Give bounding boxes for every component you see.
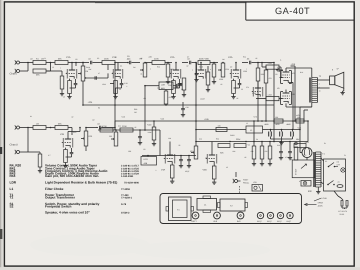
wire LDR mid left bbox=[144, 85, 159, 87]
sprinkle labels a bbox=[44, 55, 247, 71]
ground C16 bbox=[279, 156, 283, 160]
filter cap C18 +465 bbox=[264, 123, 271, 139]
resistor R31 droppr bbox=[148, 120, 157, 146]
resistor R15 1.5M bbox=[262, 62, 281, 77]
svg-text:.02: .02 bbox=[220, 83, 222, 86]
wire V2B plate up bbox=[68, 127, 81, 135]
cap C19 trem bbox=[181, 102, 189, 117]
svg-text:R10: R10 bbox=[157, 66, 160, 69]
cathode V3A bbox=[170, 164, 174, 184]
gain box right bbox=[290, 142, 298, 162]
sprinkle labels c bbox=[30, 107, 257, 121]
svg-text:4.7: 4.7 bbox=[48, 154, 51, 157]
svg-text:GAIN: GAIN bbox=[230, 134, 235, 137]
svg-text:L1: L1 bbox=[10, 187, 14, 191]
resistor R1 1M bbox=[33, 58, 46, 65]
svg-text:1500: 1500 bbox=[168, 84, 172, 87]
wire B2 feed bbox=[195, 129, 240, 131]
misc label s bbox=[205, 134, 235, 160]
triode V3B bbox=[195, 62, 206, 79]
svg-text:Gain pot, 500 ohm AB/150 ohm m: Gain pot, 500 ohm AB/150 ohm min. bbox=[45, 174, 99, 178]
filter bus wire bbox=[268, 129, 300, 131]
footswitch dashed link bbox=[239, 186, 241, 193]
svg-text:.006: .006 bbox=[232, 150, 235, 153]
label B+ c bbox=[296, 118, 301, 121]
wire rail to C4 bbox=[83, 62, 89, 64]
T1 ground bbox=[316, 187, 320, 194]
output tube V5 6V6 bbox=[280, 69, 292, 84]
svg-text:+270: +270 bbox=[253, 116, 257, 119]
AC plug P1 bbox=[334, 191, 348, 209]
svg-text:47: 47 bbox=[98, 72, 100, 75]
svg-text:6SQ7: 6SQ7 bbox=[267, 220, 272, 223]
tone pot R9 bbox=[140, 58, 147, 78]
svg-text:.445: .445 bbox=[148, 56, 152, 59]
wire pot down bbox=[82, 81, 84, 105]
label speaker bbox=[332, 68, 340, 72]
tube socket preamp 3 bbox=[277, 212, 284, 223]
svg-text:C19: C19 bbox=[186, 106, 189, 109]
svg-text:R24: R24 bbox=[216, 138, 219, 141]
vertical wire PI drop bbox=[273, 63, 275, 129]
annotation labels mid band bbox=[96, 125, 290, 174]
svg-text:Output Transformer: Output Transformer bbox=[45, 196, 76, 200]
phase inverter triode bbox=[252, 81, 263, 97]
wire PI drop2 bbox=[273, 128, 275, 142]
scan smudge left low bbox=[0, 229, 2, 239]
ground R11 bbox=[166, 80, 170, 84]
parts list LDR bbox=[10, 181, 140, 185]
tube socket preamp 1 bbox=[257, 212, 264, 223]
svg-text:470K: 470K bbox=[102, 125, 107, 128]
svg-text:JACK: JACK bbox=[318, 205, 324, 208]
svg-text:V1A: V1A bbox=[66, 56, 71, 59]
svg-text:OFF: OFF bbox=[337, 164, 340, 167]
vertical wire bus1 bbox=[114, 63, 116, 131]
wire OT to PSU bbox=[300, 107, 312, 122]
rectifier tube V7 bbox=[300, 147, 312, 158]
wire R7 to V1B bbox=[114, 62, 122, 64]
svg-text:250K: 250K bbox=[104, 57, 109, 60]
ground R28 bbox=[206, 88, 210, 92]
wire R17 to V2B bbox=[68, 128, 72, 136]
svg-text:SPKR: SPKR bbox=[318, 202, 324, 205]
svg-text:V1B: V1B bbox=[112, 56, 117, 59]
svg-text:RECT: RECT bbox=[192, 220, 198, 223]
wire J3 to rail bbox=[23, 127, 34, 129]
power labels bbox=[308, 190, 312, 193]
label R29 bbox=[124, 82, 172, 87]
LDR box mid bbox=[159, 82, 173, 90]
switch box S1 bbox=[324, 159, 346, 191]
parts list S1 bbox=[10, 202, 127, 206]
tube socket 6V6 b bbox=[237, 212, 244, 223]
choke L1 bbox=[240, 126, 268, 133]
svg-text:6SQ7: 6SQ7 bbox=[287, 220, 292, 223]
heater left box bbox=[292, 160, 314, 178]
label V3B bbox=[205, 58, 210, 61]
chassis transformer T2 shape bbox=[218, 199, 248, 211]
svg-text:C4: C4 bbox=[120, 65, 122, 68]
depth pot R24 bbox=[190, 141, 198, 159]
svg-text:V2A: V2A bbox=[170, 56, 175, 59]
wire between R1 R2 bbox=[46, 62, 55, 64]
resistor R2 68K bbox=[55, 58, 68, 65]
label R33 1M bbox=[134, 108, 137, 114]
switch S1b bbox=[327, 181, 335, 186]
svg-text:C14: C14 bbox=[199, 138, 202, 141]
svg-text:.02: .02 bbox=[140, 57, 142, 60]
plate resistor RP1 vertical bbox=[256, 62, 265, 86]
triode V4A bbox=[230, 63, 241, 79]
label +325 a bbox=[88, 101, 94, 104]
speaker SP1 bbox=[330, 72, 344, 88]
jack J3 channel 2 bbox=[15, 125, 23, 129]
svg-text:LDR: LDR bbox=[10, 181, 17, 185]
wire trem drop bbox=[159, 130, 161, 156]
coupling cap C3 bbox=[76, 62, 83, 64]
tube socket V7 rect bbox=[192, 212, 199, 223]
label Chan I bbox=[10, 73, 18, 76]
triode V2A bbox=[170, 63, 181, 79]
svg-text:6SQ7: 6SQ7 bbox=[185, 170, 189, 173]
label +185 bbox=[204, 118, 210, 121]
svg-text:R14: R14 bbox=[243, 55, 246, 58]
power transformer T1 winding bbox=[316, 152, 322, 187]
svg-text:Speaker, 4 ohm voice coil 10": Speaker, 4 ohm voice coil 10" bbox=[45, 211, 90, 215]
label V2B bbox=[60, 133, 65, 136]
transformer T2 core bbox=[309, 78, 310, 103]
resistor R17 68K bbox=[55, 122, 68, 129]
PI labels bbox=[247, 144, 268, 154]
svg-text:R25: R25 bbox=[220, 152, 223, 155]
svg-text:270: 270 bbox=[246, 86, 249, 89]
wire screens bbox=[288, 82, 294, 121]
resistor R11 100K vertical bbox=[166, 63, 174, 81]
resistor R35 on B+ rail bbox=[296, 116, 304, 123]
resistor R26 bbox=[234, 138, 246, 148]
ground C13 bbox=[138, 141, 142, 145]
resistor R22 bbox=[120, 125, 133, 132]
mid rail wire bbox=[196, 141, 308, 143]
svg-text:GA-40T: GA-40T bbox=[275, 6, 310, 16]
resistor R12 500K bbox=[198, 57, 210, 64]
resistor R10 220K bbox=[152, 57, 165, 64]
svg-text:Light Dependent Resistor & Bul: Light Dependent Resistor & Bulb Assem (7… bbox=[45, 181, 117, 185]
triode V1B bbox=[112, 63, 123, 79]
label T2 right bbox=[319, 75, 322, 78]
cathode network V2A bbox=[171, 79, 181, 99]
tremolo rail wire bbox=[142, 155, 196, 157]
scan smudge left mid bbox=[0, 147, 2, 154]
triode V1A bbox=[66, 66, 77, 79]
svg-text:5Y3: 5Y3 bbox=[303, 154, 306, 157]
svg-text:C11: C11 bbox=[118, 125, 121, 128]
svg-text:6V6: 6V6 bbox=[291, 93, 294, 96]
wire J2 riser bbox=[23, 62, 29, 71]
ground C22 bbox=[194, 78, 198, 82]
wire secondary top to speaker bbox=[317, 79, 329, 81]
switch S1a bbox=[328, 163, 338, 168]
wire R10 to V2A bbox=[165, 62, 172, 64]
pot R30 mid bbox=[179, 78, 186, 97]
cathode V4B bbox=[212, 164, 216, 185]
resistor R34 on B+ rail bbox=[274, 116, 283, 123]
svg-text:S1: S1 bbox=[325, 160, 327, 163]
label Chan II bbox=[10, 144, 19, 147]
svg-text:.25: .25 bbox=[178, 144, 180, 147]
annotation labels power bbox=[246, 122, 346, 193]
ground V1A cathode bbox=[67, 94, 71, 99]
wire V6 plate to OT bbox=[286, 103, 312, 108]
plate resistor RP2 vertical bbox=[264, 66, 272, 88]
wire J4 riser bbox=[23, 127, 29, 152]
svg-text:25: 25 bbox=[241, 88, 243, 91]
title box bbox=[246, 2, 354, 20]
svg-text:.05: .05 bbox=[134, 126, 136, 129]
annotation labels top band bbox=[30, 57, 304, 76]
svg-text:25: 25 bbox=[119, 88, 121, 91]
PI resistor RB vertical bbox=[260, 141, 264, 166]
wire V4A out bbox=[242, 62, 248, 64]
wire stage2 plate bbox=[122, 62, 128, 64]
svg-text:117 VOLTS: 117 VOLTS bbox=[338, 210, 348, 213]
svg-text:J2: J2 bbox=[52, 66, 54, 69]
junction dots rail1 bbox=[82, 62, 237, 64]
heater run bbox=[292, 121, 294, 130]
resistor R18 bbox=[28, 152, 42, 173]
resistor R13 vertical bbox=[212, 63, 216, 84]
svg-text:220K: 220K bbox=[122, 125, 127, 128]
tone pot R14 bbox=[218, 62, 229, 77]
wire B+ to OT bbox=[291, 66, 296, 122]
wire T1 to switch box bbox=[321, 158, 324, 184]
LDR box bbox=[141, 155, 157, 165]
resistor R32 below LDR bbox=[164, 90, 173, 106]
plate resistor feeds bbox=[114, 121, 116, 130]
parts list L1 bbox=[10, 187, 131, 191]
wire J1 to grid rail bbox=[23, 62, 34, 64]
label C6b bbox=[148, 56, 152, 59]
B+ bus 325 bbox=[82, 104, 274, 106]
label plus465 rect bbox=[305, 141, 309, 144]
parts list T1 bbox=[10, 193, 130, 197]
svg-text:C3: C3 bbox=[97, 57, 99, 60]
tube socket 6V6 a bbox=[214, 212, 221, 223]
svg-text:+90: +90 bbox=[143, 97, 146, 100]
wire V1A plate to rail bbox=[71, 62, 73, 66]
cap C10 .05 bbox=[247, 57, 263, 64]
cathode cap C5 bbox=[120, 79, 124, 88]
coupling cap C21 bbox=[275, 68, 283, 76]
resistor R27 bbox=[294, 138, 306, 148]
cathode resistor R8 bbox=[110, 81, 117, 94]
svg-text:+440: +440 bbox=[297, 127, 301, 130]
PI resistor RC vertical bbox=[268, 141, 272, 166]
svg-text:S-534-2: S-534-2 bbox=[121, 212, 130, 215]
svg-text:.1: .1 bbox=[155, 169, 156, 172]
pilot lamp bbox=[341, 168, 345, 172]
svg-text:C9: C9 bbox=[230, 66, 232, 69]
PI cap C16 bbox=[279, 141, 283, 156]
wire R3 to junction bbox=[46, 63, 51, 72]
output tube V6 6V6 bbox=[280, 90, 292, 105]
filter cap C19 +455 bbox=[275, 123, 282, 139]
PI cap C17 bbox=[288, 141, 292, 156]
title text GA-40T bbox=[275, 6, 310, 16]
wire to R10 bbox=[145, 62, 152, 64]
wire R2 to V1A grid bbox=[68, 63, 76, 67]
svg-text:.02: .02 bbox=[92, 118, 95, 121]
svg-text:6V6: 6V6 bbox=[291, 72, 294, 75]
ground speaker bbox=[340, 88, 344, 95]
coupling cap C4 .02 bbox=[88, 57, 102, 64]
resistor R3 68K bbox=[33, 69, 46, 77]
chassis layout box bbox=[160, 194, 302, 224]
sprinkle labels b bbox=[63, 83, 249, 101]
cap C8 bbox=[187, 57, 196, 64]
svg-text:6V6: 6V6 bbox=[237, 220, 240, 223]
triode V2B bbox=[62, 135, 73, 148]
svg-text:8: 8 bbox=[332, 69, 333, 72]
svg-text:C16: C16 bbox=[277, 144, 280, 147]
svg-text:S-78: S-78 bbox=[121, 203, 127, 206]
tube socket preamp 2 bbox=[267, 212, 274, 223]
label V4A bbox=[228, 56, 233, 59]
svg-text:+22: +22 bbox=[247, 144, 250, 147]
freq pot R23 bbox=[109, 129, 118, 146]
scan edge left strip bbox=[0, 0, 3, 270]
T1 core bbox=[314, 152, 315, 187]
ch2 labels bbox=[48, 118, 95, 157]
wire R16-R17 bbox=[46, 127, 55, 129]
wire ch2 to mixer bbox=[86, 127, 98, 129]
osc cap C14 bbox=[179, 155, 183, 164]
cap C23 mid bbox=[177, 84, 183, 88]
svg-text:R19: R19 bbox=[73, 131, 76, 134]
label on off bbox=[325, 160, 340, 167]
svg-text:75-4159-4000: 75-4159-4000 bbox=[124, 182, 140, 185]
cathode V2B bbox=[63, 148, 73, 168]
resistor R16 1M bbox=[33, 122, 46, 129]
output transformer T2 primary bbox=[312, 78, 318, 103]
spkr jack label bbox=[305, 202, 324, 208]
wire to V4A bbox=[210, 62, 218, 64]
volume pot R6 bbox=[78, 62, 89, 81]
ground C15 bbox=[187, 164, 191, 168]
svg-text:.02: .02 bbox=[275, 73, 278, 76]
jack J4 channel 2 bbox=[15, 150, 23, 154]
resistor R7 250K bbox=[102, 57, 115, 64]
trem label bbox=[128, 148, 146, 153]
label secondary taps bbox=[319, 83, 321, 93]
label +318 bbox=[291, 63, 297, 66]
bias box bbox=[301, 181, 311, 187]
chassis choke L1 shape bbox=[197, 196, 217, 213]
svg-text:LDR: LDR bbox=[161, 84, 166, 87]
bypass cap C2 bbox=[70, 79, 78, 88]
jack J2 channel 1 bbox=[15, 69, 23, 73]
svg-text:PEDAL: PEDAL bbox=[243, 182, 249, 185]
wire rect to T1 bbox=[306, 158, 308, 161]
svg-text:50-60: 50-60 bbox=[340, 213, 345, 216]
B+ rail wire bbox=[115, 120, 305, 122]
ground C14 bbox=[179, 164, 183, 168]
label plus100 bbox=[147, 124, 151, 127]
svg-text:.02: .02 bbox=[186, 65, 188, 68]
wire V5 plate to OT bbox=[286, 68, 312, 78]
svg-text:Chan.II: Chan.II bbox=[10, 144, 19, 147]
vertical wire bus2 bbox=[195, 62, 197, 142]
resistor R25 bbox=[218, 144, 230, 155]
svg-text:FOOT: FOOT bbox=[243, 179, 249, 182]
label V2A bbox=[170, 56, 175, 59]
svg-text:44B: 44B bbox=[144, 162, 148, 165]
svg-text:+465: +465 bbox=[305, 141, 309, 144]
label caps small bbox=[119, 88, 243, 91]
PI resistor RA vertical bbox=[252, 141, 256, 166]
osc cap C15 bbox=[187, 155, 191, 164]
wire filter to rect bbox=[299, 107, 302, 153]
svg-text:1M: 1M bbox=[109, 135, 112, 138]
scan bottom strip bbox=[0, 267, 360, 270]
svg-text:.05: .05 bbox=[244, 156, 246, 159]
parts list speaker bbox=[45, 211, 130, 215]
cap C12 bbox=[97, 122, 110, 129]
svg-text:+120: +120 bbox=[121, 116, 125, 119]
svg-text:Footpedal Switch: Footpedal Switch bbox=[45, 205, 71, 209]
resistor R21 bbox=[100, 125, 113, 132]
fuse F1 bbox=[337, 181, 343, 188]
svg-text:L1: L1 bbox=[246, 122, 248, 125]
filter ground bus bbox=[271, 139, 293, 145]
wire PI out up bbox=[305, 120, 309, 141]
parts list R frequency bbox=[10, 169, 140, 173]
wire RP drop to B+ bbox=[257, 86, 267, 122]
label T1 bbox=[322, 153, 325, 156]
footswitch jack J5 bbox=[233, 172, 249, 185]
svg-text:V4B: V4B bbox=[203, 169, 208, 172]
label 6V6 V6 bbox=[277, 87, 294, 96]
svg-text:.01: .01 bbox=[140, 73, 142, 76]
wire R15 to grids bbox=[261, 62, 275, 64]
cap C13 bbox=[138, 129, 142, 141]
resistor R16 1.5M bbox=[256, 94, 282, 101]
svg-text:J1: J1 bbox=[44, 57, 46, 60]
wire plate R7 feed bbox=[107, 65, 109, 71]
label V4B bbox=[203, 169, 208, 172]
svg-text:77-4159-1: 77-4159-1 bbox=[121, 197, 133, 200]
volume pot R20 bbox=[81, 127, 93, 146]
svg-text:Chan.I: Chan.I bbox=[10, 73, 18, 76]
node A junction bbox=[75, 62, 77, 64]
svg-text:77-2059: 77-2059 bbox=[121, 188, 130, 191]
svg-text:Filter Choke: Filter Choke bbox=[45, 187, 64, 191]
svg-text:F1: F1 bbox=[344, 154, 346, 157]
jack J1 channel 1 bbox=[15, 60, 23, 64]
svg-text:R33: R33 bbox=[134, 108, 137, 111]
svg-text:20: 20 bbox=[256, 138, 258, 141]
svg-text:.02: .02 bbox=[75, 58, 78, 61]
svg-text:GND: GND bbox=[323, 197, 328, 200]
parts list R gain bbox=[10, 174, 134, 178]
label V1A bbox=[66, 56, 71, 59]
ground V1B bbox=[113, 88, 121, 99]
svg-text:C7: C7 bbox=[187, 56, 189, 59]
ground C17 bbox=[288, 156, 292, 160]
filter cap C20 +440 bbox=[286, 123, 293, 139]
chassis transformer T1 outline bbox=[166, 197, 194, 221]
